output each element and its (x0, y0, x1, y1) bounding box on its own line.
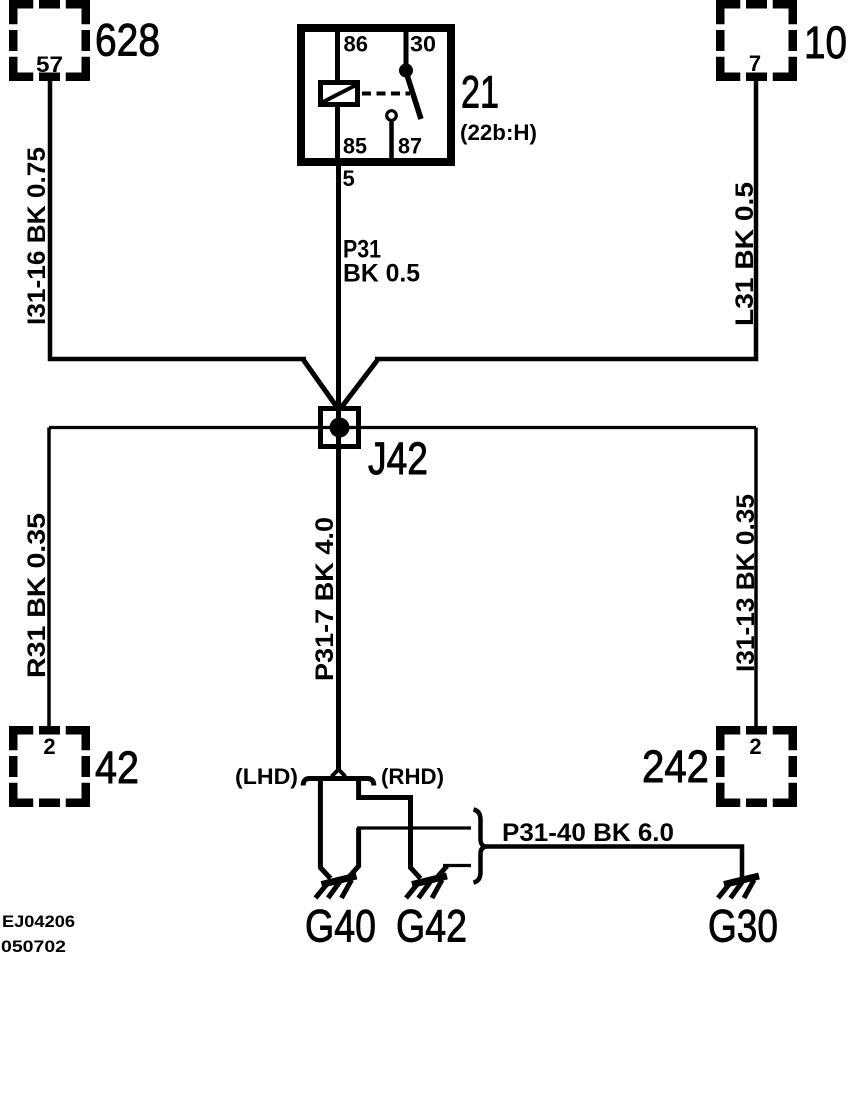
svg-text:85: 85 (343, 134, 367, 159)
svg-text:2: 2 (749, 734, 761, 759)
relay pin 87 contact (387, 111, 397, 121)
svg-text:I31-16 BK 0.75: I31-16 BK 0.75 (23, 147, 51, 325)
wire LHD branch to G40 (320, 781, 330, 879)
wire G42 right leg from brace line (437, 866, 448, 878)
svg-text:J42: J42 (368, 433, 428, 484)
wire diagonal right into J42 (342, 360, 378, 407)
svg-text:(RHD): (RHD) (381, 764, 444, 789)
wire from 10 pin 7 (375, 74, 758, 359)
wire from 628 pin 57 (48, 74, 306, 359)
relay 21 box (301, 28, 451, 162)
relay contact pivot (399, 64, 413, 78)
relay pin 87 lead (389, 120, 394, 162)
svg-text:87: 87 (398, 134, 422, 159)
svg-text:7: 7 (749, 51, 761, 76)
connector 628 (13, 4, 86, 77)
svg-text:2: 2 (43, 734, 55, 759)
wire RHD branch (356, 781, 420, 879)
ground G40 (316, 876, 357, 898)
connector 10 (720, 4, 793, 77)
svg-text:86: 86 (344, 32, 369, 57)
relay coil feed wire pin 86 to 85 (335, 28, 340, 160)
svg-text:21: 21 (461, 67, 499, 118)
relay coil (321, 83, 358, 105)
wire G42 to brace (443, 864, 471, 867)
svg-text:R31 BK 0.35: R31 BK 0.35 (23, 513, 51, 678)
svg-text:628: 628 (95, 15, 160, 66)
svg-text:(LHD): (LHD) (235, 764, 298, 789)
svg-text:242: 242 (642, 741, 709, 792)
svg-text:5: 5 (343, 166, 355, 191)
svg-text:57: 57 (36, 52, 63, 77)
svg-text:L31 BK 0.5: L31 BK 0.5 (731, 182, 759, 326)
connector 242 (720, 730, 793, 803)
svg-text:050702: 050702 (1, 938, 66, 956)
svg-text:42: 42 (95, 742, 139, 793)
relay switch arm (407, 75, 421, 119)
svg-text:I31-13 BK 0.35: I31-13 BK 0.35 (732, 494, 760, 672)
svg-text:EJ04206: EJ04206 (2, 913, 75, 931)
wire to connector 42 (47, 428, 51, 728)
wire P31 relay pin 5 down to J42 (336, 162, 341, 771)
svg-text:G40: G40 (305, 901, 376, 952)
svg-text:BK 0.5: BK 0.5 (343, 260, 420, 288)
variant split bar (303, 779, 374, 786)
svg-text:10: 10 (804, 17, 847, 68)
wire G40 to brace (357, 826, 471, 829)
junction J42 (321, 409, 359, 447)
brace (474, 810, 487, 883)
svg-text:G42: G42 (396, 901, 467, 952)
ground G42 (406, 876, 447, 898)
svg-text:G30: G30 (708, 901, 778, 952)
wire diagonal left into J42 (304, 360, 337, 407)
bus wire through J42 (49, 426, 756, 429)
svg-text:30: 30 (410, 32, 436, 57)
relay pin 30 lead (404, 28, 409, 66)
ground G30 (718, 876, 759, 898)
wire P31-40 to G30 (487, 844, 743, 879)
svg-text:P31-40 BK 6.0: P31-40 BK 6.0 (502, 819, 674, 847)
relay actuation dashed link (362, 92, 410, 96)
wire G40 right leg from brace line (349, 828, 359, 878)
svg-text:P31-7 BK 4.0: P31-7 BK 4.0 (311, 517, 339, 681)
connector 42 (13, 730, 86, 803)
svg-text:(22b:H): (22b:H) (460, 120, 537, 145)
wire to connector 242 (754, 428, 758, 728)
